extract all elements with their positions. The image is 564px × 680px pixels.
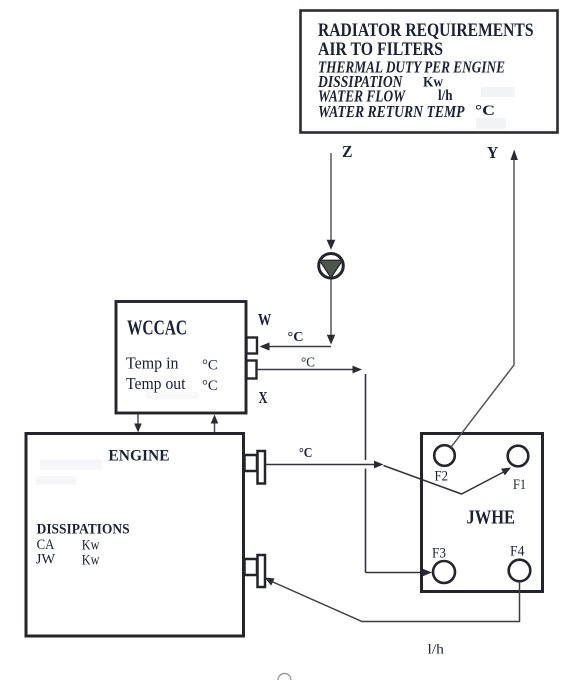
- svg-text:F1: F1: [513, 477, 526, 493]
- svg-text:Temp out: Temp out: [126, 374, 186, 393]
- svg-text:l/h: l/h: [428, 642, 445, 657]
- artifact: faint ghost marks in radiator box: [476, 87, 515, 129]
- svg-text:JW: JW: [36, 552, 56, 568]
- svg-text:F2: F2: [435, 469, 449, 485]
- wire: vertical down to F3, then right into F3 (arrow): [366, 374, 433, 576]
- box: RADIATOR REQUIREMENTS: [301, 11, 558, 133]
- artifact: faint ghost marks near X wire: [146, 392, 198, 399]
- svg-text:°C: °C: [202, 357, 218, 373]
- svg-text:°C: °C: [475, 103, 495, 119]
- svg-text:ENGINE: ENGINE: [108, 448, 169, 465]
- svg-text:W: W: [258, 310, 272, 329]
- box: ENGINE: [26, 434, 244, 637]
- wire: F2 up to Y (arrow up at top): [451, 150, 518, 448]
- artifact: faint partial glyph bottom centre: [278, 674, 291, 680]
- svg-text:°C: °C: [288, 329, 304, 344]
- port W on WCCAC: [247, 338, 258, 354]
- svg-text:F4: F4: [510, 544, 525, 560]
- port F2 circle: [434, 445, 455, 466]
- svg-text:°C: °C: [299, 445, 313, 460]
- wire: Z down to pump: [327, 153, 336, 250]
- svg-text:JWHE: JWHE: [467, 507, 516, 529]
- svg-text:°C: °C: [202, 378, 218, 394]
- wire: pump down to W-line: [327, 280, 335, 345]
- svg-text:DISSIPATIONS: DISSIPATIONS: [37, 522, 130, 538]
- svg-text:°C: °C: [301, 355, 315, 370]
- svg-text:F3: F3: [432, 546, 446, 562]
- svg-text:Z: Z: [342, 142, 353, 161]
- svg-text:WATER RETURN TEMP: WATER RETURN TEMP: [318, 102, 465, 121]
- svg-text:RADIATOR REQUIREMENTS: RADIATOR REQUIREMENTS: [318, 20, 534, 41]
- wire: F4 down, left, diagonal into engine lower port (arrow): [265, 578, 520, 622]
- svg-text:Kw: Kw: [82, 553, 100, 569]
- svg-text:Temp in: Temp in: [126, 354, 179, 373]
- artifact: faint ghost marks in engine box: [36, 459, 102, 485]
- port F3 circle: [433, 561, 455, 583]
- svg-text:Y: Y: [487, 143, 498, 162]
- wire: ENGINE to WCCAC (arrow up): [211, 415, 219, 433]
- box: WCCAC: [116, 302, 246, 414]
- wire: from port X to right (arrow right): [257, 366, 362, 374]
- svg-text:Kw: Kw: [82, 538, 100, 554]
- wire: engine upper port to F1 (arrow right then diagonals, arrow into F1): [266, 461, 511, 494]
- wire: into WCCAC port W (arrow left): [260, 342, 332, 350]
- wire: WCCAC to ENGINE (arrow down): [134, 415, 142, 433]
- box: JWHE: [422, 434, 543, 592]
- svg-text:WCCAC: WCCAC: [127, 316, 187, 340]
- port F4 circle: [509, 560, 531, 582]
- pump P1: [319, 253, 344, 278]
- port F1 circle: [508, 446, 529, 467]
- port X on WCCAC: [247, 361, 257, 379]
- svg-text:X: X: [259, 388, 268, 407]
- port: engine upper (jacket water out): [245, 451, 266, 484]
- port: engine lower (jacket water in): [245, 555, 266, 587]
